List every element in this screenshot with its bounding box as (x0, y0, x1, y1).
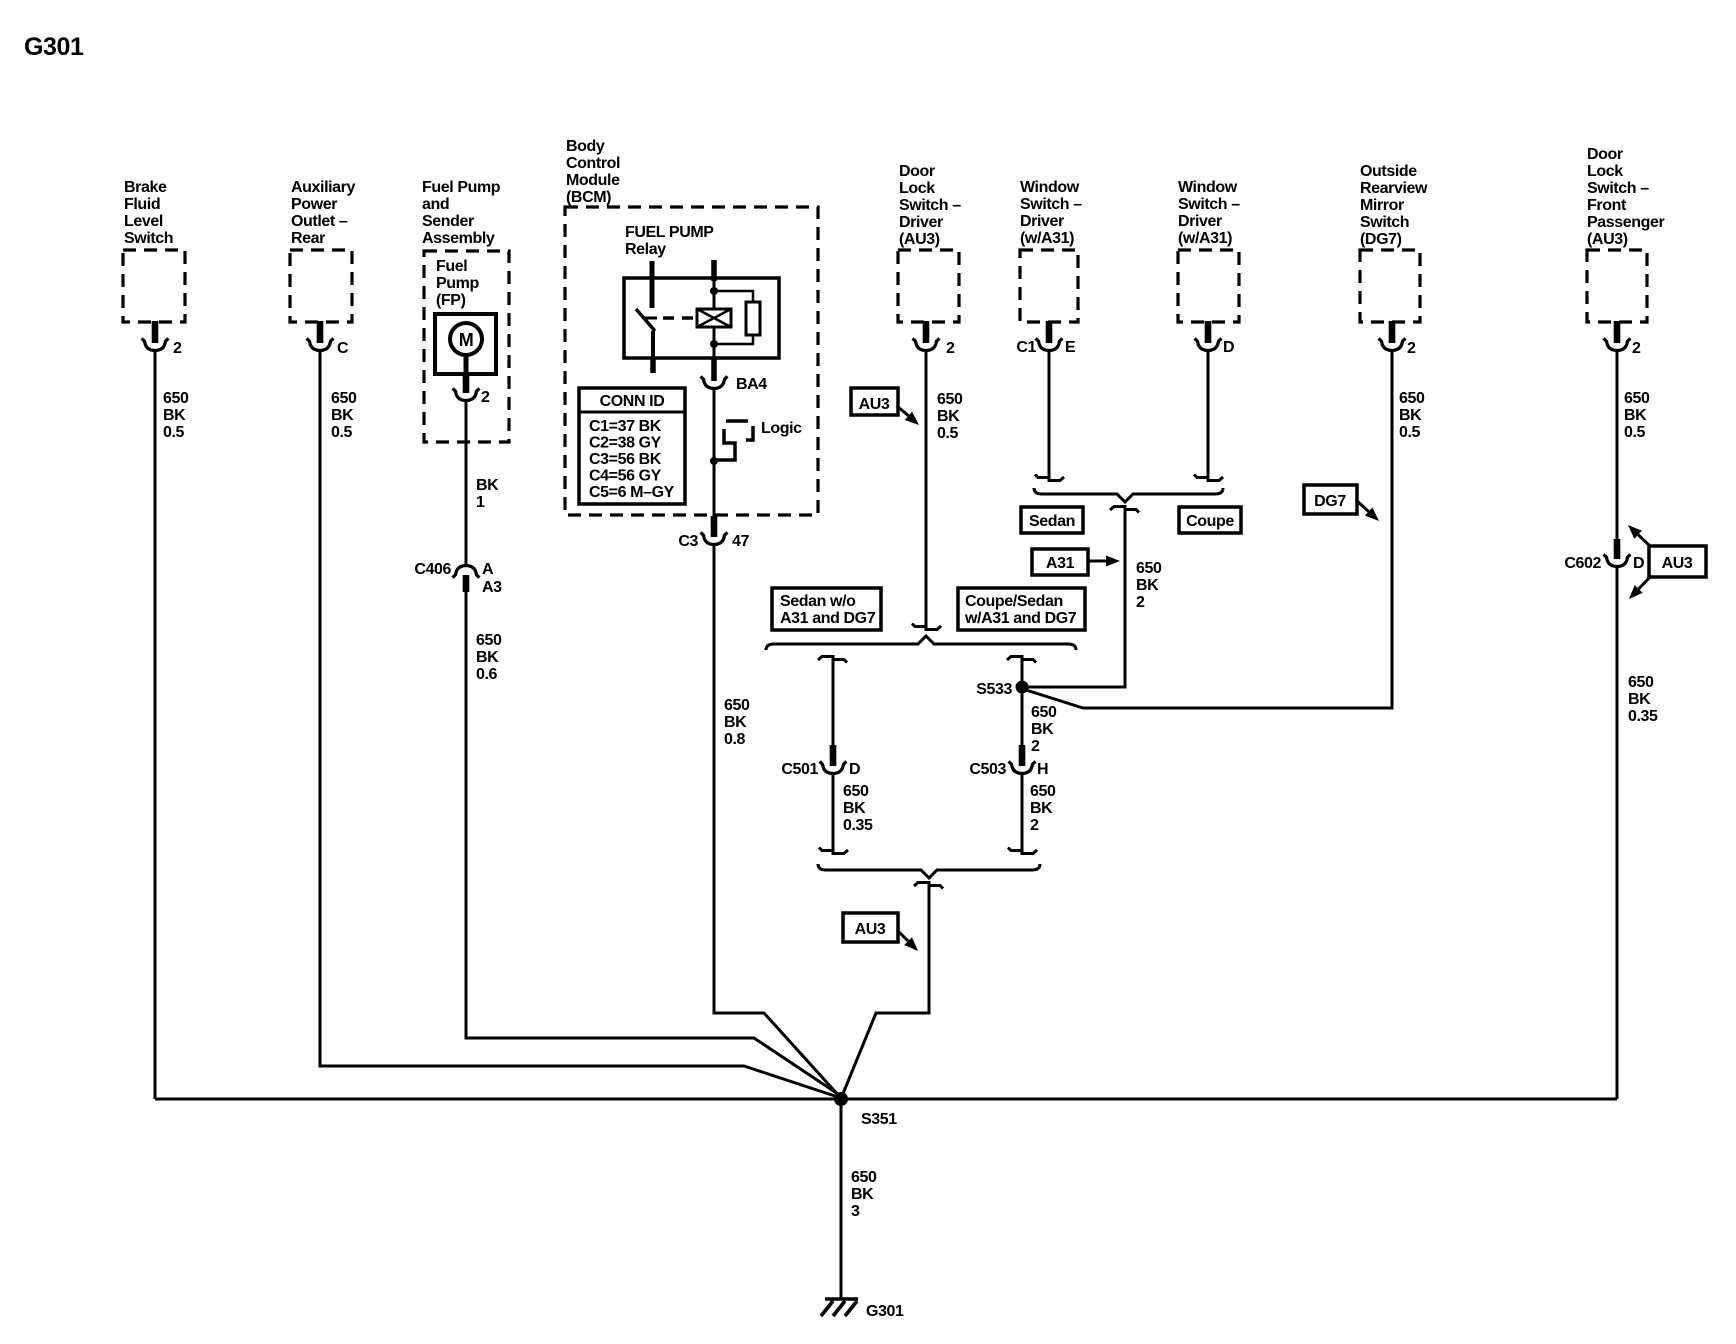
svg-text:Lock: Lock (1587, 163, 1623, 180)
svg-text:0.35: 0.35 (1628, 708, 1658, 725)
wire 650 BK 0.5 from Mirror Switch to S533 (1026, 351, 1392, 708)
svg-text:650: 650 (1030, 783, 1056, 800)
svg-text:Front: Front (1587, 197, 1627, 214)
svg-text:650: 650 (163, 390, 189, 407)
svg-text:S351: S351 (861, 1111, 897, 1128)
svg-text:BK: BK (1030, 800, 1053, 817)
svg-text:Door: Door (1587, 146, 1623, 163)
svg-text:BK: BK (476, 649, 499, 666)
wire label 650 BK 0.5 (937, 391, 963, 442)
junction dot logic to wire (710, 457, 718, 465)
svg-text:Relay: Relay (625, 241, 666, 258)
svg-text:Switch –: Switch – (1020, 196, 1082, 213)
wire label 650 BK 0.5 (163, 390, 189, 441)
resistor branch wires (714, 291, 753, 344)
svg-text:0.5: 0.5 (1624, 424, 1646, 441)
svg-text:Switch –: Switch – (1587, 180, 1649, 197)
wire end terminal option Coupe/Sedan (1008, 848, 1037, 854)
option tag AU3 with arrow (851, 388, 919, 425)
svg-text:D: D (1633, 555, 1644, 572)
splice S533 (976, 681, 1028, 699)
component box Door Lock Switch - Driver (898, 250, 959, 322)
svg-text:2: 2 (1407, 340, 1416, 357)
svg-text:Outlet –: Outlet – (291, 213, 348, 230)
svg-text:Passenger: Passenger (1587, 214, 1665, 231)
inline connector C406 pin A A3 (414, 561, 502, 596)
svg-text:C5=6 M–GY: C5=6 M–GY (589, 484, 675, 501)
svg-text:650: 650 (1136, 560, 1162, 577)
svg-text:Window: Window (1020, 179, 1080, 196)
svg-text:650: 650 (1031, 704, 1057, 721)
svg-text:A3: A3 (482, 579, 502, 596)
svg-text:650: 650 (331, 390, 357, 407)
wire 650 BK 2 from window merge to S533 (1028, 507, 1125, 687)
label Fuel Pump (FP) (436, 258, 479, 309)
svg-text:BA4: BA4 (736, 376, 767, 393)
svg-text:C3: C3 (678, 533, 698, 550)
svg-text:(AU3): (AU3) (899, 231, 940, 248)
svg-text:Assembly: Assembly (422, 230, 495, 247)
option tag Sedan w/o A31 and DG7 (772, 588, 881, 630)
svg-text:Sedan: Sedan (1029, 513, 1075, 530)
svg-text:Module: Module (566, 172, 620, 189)
svg-text:G301: G301 (866, 1303, 904, 1320)
wire from Window Switch left (1048, 351, 1051, 477)
split brace sedan options (766, 636, 1076, 650)
svg-text:0.5: 0.5 (331, 424, 353, 441)
label Door Lock Switch - Front Passenger (AU3) (1587, 146, 1665, 248)
inline connector C602 pin D (1564, 539, 1644, 572)
junction dot above coil (710, 287, 718, 295)
component box Outside Rearview Mirror Switch (1360, 250, 1420, 322)
svg-text:0.8: 0.8 (724, 731, 746, 748)
svg-text:BK: BK (1399, 407, 1422, 424)
svg-text:G301: G301 (24, 33, 84, 61)
svg-text:0.5: 0.5 (937, 425, 959, 442)
svg-text:A: A (482, 561, 494, 578)
wire from brace through S533 to C503 (1021, 657, 1024, 745)
svg-text:D: D (849, 761, 860, 778)
wire label 650 BK 0.35 (843, 783, 873, 834)
CONN ID table (579, 388, 685, 504)
svg-text:and: and (422, 196, 449, 213)
svg-text:AU3: AU3 (1662, 555, 1693, 572)
wire from brace to C501 (832, 657, 835, 745)
svg-text:650: 650 (476, 632, 502, 649)
svg-text:2: 2 (946, 340, 955, 357)
svg-text:650: 650 (724, 697, 750, 714)
svg-text:Fuel Pump: Fuel Pump (422, 179, 501, 196)
svg-text:C503: C503 (969, 761, 1006, 778)
svg-text:Sedan w/o: Sedan w/o (780, 593, 856, 610)
svg-text:AU3: AU3 (859, 396, 890, 413)
wire start terminal below window brace (1110, 507, 1139, 513)
svg-text:BK: BK (476, 477, 499, 494)
svg-text:C1: C1 (1016, 339, 1036, 356)
splice S351 (834, 1092, 897, 1128)
pin C of Auxiliary Power Outlet (307, 321, 349, 357)
svg-text:Window: Window (1178, 179, 1238, 196)
svg-text:(BCM): (BCM) (566, 189, 611, 206)
svg-text:Auxiliary: Auxiliary (291, 179, 355, 196)
svg-text:BK: BK (724, 714, 747, 731)
svg-text:Driver: Driver (899, 214, 943, 231)
svg-text:Outside: Outside (1360, 163, 1417, 180)
component box Window Switch - Driver right (1178, 250, 1239, 322)
svg-text:C602: C602 (1564, 555, 1601, 572)
svg-text:Driver: Driver (1178, 213, 1222, 230)
wire from Window Switch right (1207, 351, 1210, 477)
wire 650 BK 0.35 from C501 (832, 774, 835, 850)
component box Body Control Module (565, 207, 818, 515)
component box Fuel Pump and Sender Assembly (424, 251, 509, 442)
svg-text:(DG7): (DG7) (1360, 231, 1402, 248)
wire label 650 BK 0.8 (724, 697, 750, 748)
wire from BA4 to C3 (713, 389, 716, 517)
svg-text:AU3: AU3 (855, 921, 886, 938)
svg-text:Body: Body (566, 138, 605, 155)
option tag Coupe (1179, 507, 1241, 533)
pin C1 E of Window Switch left (1016, 321, 1076, 356)
inline connector C501 pin D (781, 745, 860, 778)
wire label 650 BK 0.35 (1628, 674, 1658, 725)
svg-text:Switch: Switch (124, 230, 173, 247)
svg-text:BK: BK (851, 1186, 874, 1203)
svg-text:1: 1 (476, 494, 485, 511)
svg-text:Mirror: Mirror (1360, 197, 1404, 214)
svg-text:Rearview: Rearview (1360, 180, 1428, 197)
svg-text:Door: Door (899, 163, 935, 180)
wire BK 1 from Fuel Pump to C406 (465, 401, 468, 565)
option tag AU3 lower with arrow (843, 913, 918, 951)
svg-text:Lock: Lock (899, 180, 935, 197)
svg-text:BK: BK (331, 407, 354, 424)
relay switch pin (top left stub) (650, 261, 655, 308)
svg-text:Level: Level (124, 213, 163, 230)
svg-text:0.35: 0.35 (843, 817, 873, 834)
ground symbol G301 (821, 1299, 904, 1320)
svg-text:Pump: Pump (436, 275, 479, 292)
relay switch lower contact (651, 331, 655, 358)
wire end terminal option Sedan w/o (819, 848, 848, 854)
label Door Lock Switch - Driver (AU3) (899, 163, 961, 248)
svg-text:Brake: Brake (124, 179, 167, 196)
svg-text:Coupe: Coupe (1186, 513, 1234, 530)
svg-text:Switch –: Switch – (1178, 196, 1240, 213)
wire 650 BK 2 from C503 (1021, 774, 1024, 850)
svg-text:C501: C501 (781, 761, 818, 778)
relay switch blade (636, 309, 657, 331)
wire 650 BK 0.5 from Brake Fluid Level Switch to S351 (154, 351, 157, 1099)
svg-text:0.5: 0.5 (1399, 424, 1421, 441)
svg-text:Fuel: Fuel (436, 258, 467, 275)
svg-text:Fluid: Fluid (124, 196, 160, 213)
relay switch bottom stub (650, 358, 656, 373)
svg-text:A31: A31 (1046, 555, 1075, 572)
label Fuel Pump and Sender Assembly (422, 179, 501, 247)
svg-text:C: C (337, 340, 349, 357)
logic symbol (717, 421, 753, 460)
wire label 650 BK 0.5 (1624, 390, 1650, 441)
wire label 650 BK 0.6 (476, 632, 502, 683)
pin 2 of Mirror Switch (1379, 321, 1416, 357)
svg-text:47: 47 (732, 533, 749, 550)
svg-text:(w/A31): (w/A31) (1020, 230, 1074, 247)
relay box (624, 278, 779, 358)
svg-text:S533: S533 (976, 681, 1012, 698)
svg-text:(FP): (FP) (436, 292, 466, 309)
component box Door Lock Switch - Front Passenger (1587, 250, 1647, 322)
svg-text:D: D (1223, 339, 1234, 356)
relay linkage dashed line (663, 316, 695, 320)
option tag A31 with arrow (1032, 549, 1120, 575)
pin 2 of Door Lock Switch - Driver (913, 321, 955, 357)
wire 650 BK 0.5 from Door Lock Switch Driver (925, 351, 928, 626)
component box Brake Fluid Level Switch (123, 250, 185, 322)
wire end terminal Window Switch right (1194, 475, 1223, 481)
wire start terminal option Sedan w/o (818, 657, 847, 663)
svg-text:650: 650 (1624, 390, 1650, 407)
option tag Coupe/Sedan w/A31 and DG7 (958, 588, 1085, 630)
svg-text:Coupe/Sedan: Coupe/Sedan (965, 593, 1063, 610)
svg-text:650: 650 (1399, 390, 1425, 407)
pin 2 of Brake Fluid Level Switch (142, 321, 182, 357)
wire end terminal above sedan brace (912, 624, 941, 630)
option tag Sedan (1021, 507, 1083, 533)
svg-text:E: E (1065, 339, 1076, 356)
svg-text:w/A31 and DG7: w/A31 and DG7 (964, 610, 1077, 627)
svg-text:650: 650 (937, 391, 963, 408)
wire 650 BK 0.5 from Auxiliary Power Outlet to S351 (320, 351, 841, 1098)
label Brake Fluid Level Switch (124, 179, 173, 247)
bottom bus wire into S351 (155, 1098, 1617, 1101)
svg-text:(AU3): (AU3) (1587, 231, 1628, 248)
svg-text:M: M (459, 330, 474, 350)
pin D of Window Switch right (1195, 321, 1235, 356)
motor box Fuel Pump (435, 314, 496, 374)
svg-text:650: 650 (1628, 674, 1654, 691)
svg-text:2: 2 (1030, 817, 1039, 834)
label Window Switch - Driver (w/A31) left (1020, 179, 1082, 247)
svg-text:2: 2 (1136, 594, 1145, 611)
svg-text:Driver: Driver (1020, 213, 1064, 230)
svg-text:Switch –: Switch – (899, 197, 961, 214)
relay coil (crossed box) (697, 309, 731, 327)
svg-text:2: 2 (1031, 738, 1040, 755)
wire label BK 1 (476, 477, 499, 511)
svg-text:C406: C406 (414, 561, 451, 578)
pin BA4 of BCM relay (701, 376, 768, 393)
svg-text:Logic: Logic (761, 420, 802, 437)
junction dot below coil (710, 340, 718, 348)
svg-text:BK: BK (1624, 407, 1647, 424)
label Auxiliary Power Outlet - Rear (291, 179, 355, 247)
wire from relay top to coil (713, 281, 716, 309)
wire end terminal Window Switch left (1035, 475, 1064, 481)
svg-text:H: H (1037, 761, 1048, 778)
option tag DG7 with arrow (1304, 485, 1379, 521)
component box Window Switch - Driver left (1020, 250, 1078, 322)
option tag AU3 with two arrows at C602 (1628, 525, 1706, 599)
label Body Control Module (BCM) (566, 138, 620, 206)
relay coil bottom stub (711, 358, 717, 381)
svg-text:(w/A31): (w/A31) (1178, 230, 1232, 247)
svg-text:0.5: 0.5 (163, 424, 185, 441)
svg-text:2: 2 (173, 340, 182, 357)
wire start terminal option Coupe/Sedan (1007, 657, 1036, 663)
wire 650 BK 0.5 from Front Passenger switch to C602 (1616, 351, 1619, 540)
wire 650 BK 0.35 from C602 to S351 (1616, 567, 1619, 1099)
wire 650 BK 3 to ground (840, 1099, 843, 1299)
svg-text:Rear: Rear (291, 230, 325, 247)
svg-text:C1=37 BK: C1=37 BK (589, 418, 662, 435)
svg-text:Sender: Sender (422, 213, 474, 230)
wire from coil to bottom junction (713, 327, 716, 358)
svg-text:Switch: Switch (1360, 214, 1409, 231)
label Window Switch - Driver (w/A31) right (1178, 179, 1240, 247)
wire label 650 BK 0.5 (1399, 390, 1425, 441)
relay coil pin (top stub) (711, 260, 717, 281)
svg-text:2: 2 (1632, 340, 1641, 357)
svg-text:C4=56 GY: C4=56 GY (589, 468, 662, 485)
component box Auxiliary Power Outlet - Rear (290, 250, 352, 322)
svg-text:BK: BK (1628, 691, 1651, 708)
wire 650 BK 0.6 from C406 to S351 (466, 590, 841, 1096)
wire label 650 BK 0.5 (331, 390, 357, 441)
svg-text:DG7: DG7 (1314, 493, 1346, 510)
resistor (746, 302, 760, 335)
svg-text:C3=56 BK: C3=56 BK (589, 451, 662, 468)
svg-text:BK: BK (1031, 721, 1054, 738)
svg-text:Power: Power (291, 196, 337, 213)
wire start terminal below merge brace (914, 883, 943, 889)
wire label 650 BK 3 (851, 1169, 877, 1220)
label Outside Rearview Mirror Switch (DG7) (1360, 163, 1428, 248)
label FUEL PUMP Relay (625, 224, 714, 258)
svg-text:A31 and DG7: A31 and DG7 (780, 610, 876, 627)
svg-text:2: 2 (481, 389, 490, 406)
svg-text:0.6: 0.6 (476, 666, 498, 683)
pin C3 47 of BCM (678, 516, 749, 550)
svg-text:3: 3 (851, 1203, 860, 1220)
svg-text:650: 650 (851, 1169, 877, 1186)
merge brace options to AU3 wire (818, 864, 1040, 878)
wire label 650 BK 2 (1136, 560, 1162, 611)
wire 650 BK 0.8 from BCM to S351 (714, 545, 840, 1097)
motor M symbol (450, 323, 482, 374)
svg-text:FUEL PUMP: FUEL PUMP (625, 224, 714, 241)
wire label 650 BK 2 below S533 (1031, 704, 1057, 755)
merge brace window switches (1034, 488, 1223, 502)
pin 2 of Fuel Pump (453, 374, 490, 406)
svg-text:Control: Control (566, 155, 620, 172)
inline connector C503 pin H (969, 745, 1048, 778)
svg-text:BK: BK (163, 407, 186, 424)
svg-text:BK: BK (937, 408, 960, 425)
svg-text:BK: BK (1136, 577, 1159, 594)
svg-text:C2=38 GY: C2=38 GY (589, 435, 662, 452)
svg-text:CONN ID: CONN ID (600, 393, 665, 410)
svg-text:650: 650 (843, 783, 869, 800)
wire from merge brace to S351 (842, 883, 929, 1096)
wire label 650 BK 2 (1030, 783, 1056, 834)
svg-text:BK: BK (843, 800, 866, 817)
pin 2 of Door Lock Switch - Front Passenger (1604, 321, 1641, 357)
